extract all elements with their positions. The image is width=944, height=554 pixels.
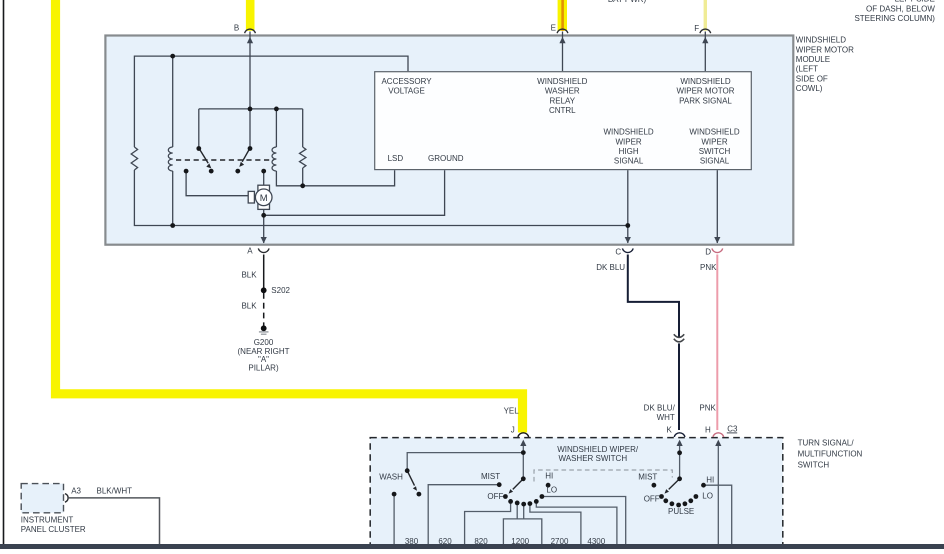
wire: delay tap 1 to 820 ladder: [465, 501, 511, 544]
svg-text:OFF: OFF: [487, 492, 503, 501]
svg-text:INSTRUMENT: INSTRUMENT: [21, 515, 74, 524]
junction dots inside module: [170, 54, 175, 59]
wire: DK BLU/WHT from connector to K: [678, 343, 680, 430]
ground G200: [261, 325, 267, 331]
wire: SWITCH SIGNAL pin drop to D: [716, 170, 718, 243]
inline connector on DK BLU wire: [674, 334, 684, 337]
wire: H feed through to delay board: [717, 446, 719, 544]
wire: PNK from D to H: [716, 255, 718, 431]
wire: coil L2 bottom to LSD: [276, 170, 394, 186]
svg-text:SWITCH: SWITCH: [699, 147, 731, 156]
wire: pulse HI tap: [704, 485, 732, 544]
wire: delay tap 5: [536, 501, 617, 544]
svg-text:S202: S202: [271, 286, 290, 295]
svg-text:WIPER: WIPER: [701, 137, 727, 146]
svg-text:MIST: MIST: [638, 472, 657, 481]
junction: K wire: [677, 450, 682, 455]
svg-text:SIDE OF: SIDE OF: [796, 74, 828, 83]
svg-text:WINDSHIELD: WINDSHIELD: [689, 128, 739, 137]
mechanical link (dashed): [176, 159, 274, 161]
svg-text:PANEL CLUSTER: PANEL CLUSTER: [21, 525, 86, 534]
wire: B pin drop to switch S2 pivot: [249, 32, 251, 149]
connector A (arrow + arc): [247, 237, 269, 255]
connector C (arrow + arc): [615, 237, 633, 257]
svg-text:PARK SIGNAL: PARK SIGNAL: [679, 96, 732, 105]
wire: thick YEL feed (vertical left, horizontal run, drop to J): [56, 0, 523, 433]
svg-text:B: B: [234, 24, 239, 33]
wire: motor bottom to GROUND pin: [264, 170, 445, 215]
svg-text:MULTIFUNCTION: MULTIFUNCTION: [798, 450, 863, 459]
relay coil L2: [272, 147, 276, 171]
label: WINDSHIELD WASHER RELAY CNTRL pin: [537, 77, 587, 115]
svg-text:LO: LO: [546, 486, 557, 495]
wire: delay tap 4 to 4300 ladder: [530, 504, 581, 544]
wire: BLK from S202 to G200 (dashed): [263, 293, 265, 326]
label: WINDSHIELD WIPER SWITCH SIGNAL pin: [689, 128, 739, 166]
resistor R1: [131, 147, 137, 170]
connector A3 (arc): [65, 494, 68, 503]
svg-text:C3: C3: [727, 424, 738, 433]
wire: LT YEL drop to connector F: [704, 0, 707, 31]
connector H (arc + arrow): [705, 426, 724, 446]
instrument panel cluster box: [21, 484, 63, 513]
wire: bottom rail to HIGH SIGNAL pin: [134, 170, 627, 226]
wire: delay tap 2: [516, 503, 518, 519]
svg-text:E: E: [551, 24, 556, 33]
svg-text:WINDSHIELD: WINDSHIELD: [680, 77, 730, 86]
wire: F pin drop: [704, 32, 706, 72]
svg-text:MODULE: MODULE: [796, 55, 830, 64]
svg-text:BLK: BLK: [241, 302, 257, 311]
svg-text:PILLAR): PILLAR): [248, 363, 279, 372]
wire: accessory voltage rail: [134, 56, 408, 147]
relay switch S2: [235, 146, 266, 173]
svg-text:HI: HI: [706, 475, 714, 484]
svg-text:LEFT SIDE: LEFT SIDE: [895, 0, 935, 4]
wire: left vertical BLK bus: [3, 0, 5, 545]
svg-text:DK BLU: DK BLU: [596, 263, 625, 272]
wire: J drop to wiper switch pivot: [522, 446, 524, 478]
connector E (arc + arrow): [551, 24, 568, 44]
wire: BLK from A to S202: [263, 255, 265, 289]
wire: motor top to S2 contact: [263, 171, 265, 186]
svg-text:SWITCH: SWITCH: [798, 460, 830, 469]
svg-text:K: K: [666, 426, 672, 435]
connector J (arc + arrow): [511, 426, 529, 446]
wiper motor M1: [248, 185, 272, 209]
wire: delay tap 3: [523, 504, 525, 519]
wire: washer pump output: [393, 494, 395, 544]
svg-text:WINDSHIELD WIPER/: WINDSHIELD WIPER/: [557, 445, 639, 454]
svg-text:LO: LO: [702, 491, 713, 500]
wire: coil L1 top feed: [172, 56, 174, 147]
svg-text:GROUND: GROUND: [428, 154, 464, 163]
svg-text:TURN SIGNAL/: TURN SIGNAL/: [798, 438, 855, 447]
svg-text:WIPER MOTOR: WIPER MOTOR: [676, 87, 734, 96]
svg-text:YEL: YEL: [504, 406, 520, 415]
connector K (arc + arrow): [666, 426, 685, 446]
svg-text:(LEFT: (LEFT: [796, 65, 818, 74]
svg-text:D: D: [705, 248, 711, 257]
svg-text:A: A: [247, 246, 253, 255]
svg-text:PULSE: PULSE: [668, 507, 694, 516]
svg-text:C: C: [615, 248, 621, 257]
svg-text:OF DASH, BELOW: OF DASH, BELOW: [866, 5, 935, 14]
svg-text:STEERING COLUMN): STEERING COLUMN): [854, 14, 935, 23]
svg-text:WASH: WASH: [379, 472, 403, 481]
svg-text:RELAY: RELAY: [549, 96, 575, 105]
splice S202: [261, 287, 267, 293]
bottom window edge band: [0, 544, 944, 549]
svg-text:DK BLU/: DK BLU/: [644, 404, 676, 413]
label: module name: [796, 36, 854, 94]
svg-text:HI: HI: [545, 471, 553, 480]
wire: BLK/WHT from instrument panel cluster: [69, 498, 160, 544]
connector D (arrow + arc): [705, 237, 722, 257]
svg-text:BAT PWR): BAT PWR): [608, 0, 647, 4]
wire: E pin drop: [562, 32, 564, 72]
WASH switch blade: [407, 471, 414, 486]
wire: J branch to WASH switch: [407, 453, 523, 470]
svg-text:WASHER: WASHER: [545, 87, 580, 96]
inner control box (white): [375, 72, 752, 170]
resistor R2: [300, 147, 306, 168]
svg-text:WIPER MOTOR: WIPER MOTOR: [796, 45, 854, 54]
svg-text:PNK: PNK: [699, 404, 716, 413]
junction: J branch: [521, 450, 526, 455]
wire: R2 bottom: [302, 168, 304, 186]
wire: 1200 ladder bridge: [503, 519, 541, 544]
relay switch S1: [184, 146, 214, 173]
connector B (arc + arrow): [234, 24, 256, 44]
windshield wiper motor module box U1: [105, 36, 793, 245]
resistor values: [405, 537, 606, 546]
label: WINDSHIELD WIPER MOTOR PARK SIGNAL pin: [676, 77, 734, 105]
wire: YEL drop to connector B: [246, 0, 255, 31]
svg-text:WASHER SWITCH: WASHER SWITCH: [559, 454, 628, 463]
label: WINDSHIELD WIPER HIGH SIGNAL pin: [603, 128, 653, 166]
connector F (arc + arrow): [694, 24, 710, 43]
switch mechanical link (dashed): [534, 470, 672, 482]
wire: YEL drop to connector E: [558, 0, 567, 31]
svg-text:SIGNAL: SIGNAL: [700, 157, 730, 166]
svg-text:LSD: LSD: [388, 154, 404, 163]
wire: HIGH SIGNAL pin drop to C: [627, 170, 629, 243]
svg-text:WINDSHIELD: WINDSHIELD: [603, 128, 653, 137]
svg-text:M: M: [260, 193, 268, 204]
svg-text:WINDSHIELD: WINDSHIELD: [537, 77, 587, 86]
svg-text:BLK/WHT: BLK/WHT: [97, 486, 133, 495]
relay coil L1: [168, 147, 172, 171]
svg-text:WIPER: WIPER: [615, 137, 641, 146]
wire: coil L1 bottom: [172, 171, 174, 226]
svg-text:BLK: BLK: [241, 270, 257, 279]
wire: relay contact rail: [199, 109, 303, 148]
svg-text:H: H: [705, 426, 711, 435]
wire: S1 output to motor: [186, 171, 250, 196]
label: ACCESSORY VOLTAGE pin: [381, 77, 432, 96]
svg-text:MIST: MIST: [481, 472, 500, 481]
wire: LO tap: [542, 497, 626, 545]
svg-text:ACCESSORY: ACCESSORY: [381, 77, 432, 86]
svg-text:CNTRL: CNTRL: [549, 106, 576, 115]
wire: DK BLU from C to inline connector: [628, 255, 679, 338]
svg-text:A3: A3: [71, 486, 81, 495]
svg-text:WHT: WHT: [657, 413, 675, 422]
svg-text:PNK: PNK: [700, 263, 717, 272]
wire: MIST tap to 620 ladder: [428, 485, 499, 544]
svg-text:OFF: OFF: [644, 495, 660, 504]
wire: K drop to pulse switch pivot: [679, 446, 681, 478]
wire: motor bottom to A pin: [263, 215, 265, 243]
svg-text:F: F: [694, 24, 699, 33]
svg-text:J: J: [511, 426, 515, 435]
wire: coil L2 top feed: [275, 109, 277, 147]
svg-text:G200: G200: [254, 338, 274, 347]
svg-text:HIGH: HIGH: [619, 147, 639, 156]
svg-text:WINDSHIELD: WINDSHIELD: [796, 36, 846, 45]
svg-text:VOLTAGE: VOLTAGE: [388, 87, 425, 96]
turn signal / multifunction switch box: [370, 438, 783, 554]
svg-text:COWL): COWL): [796, 84, 823, 93]
svg-text:SIGNAL: SIGNAL: [614, 157, 644, 166]
